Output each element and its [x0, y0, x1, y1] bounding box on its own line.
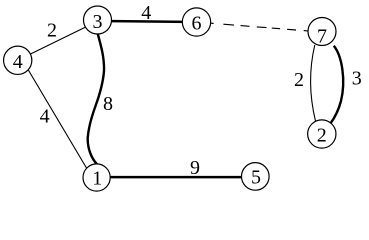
svg-text:4: 4 — [40, 106, 50, 128]
svg-text:9: 9 — [190, 157, 200, 179]
svg-text:5: 5 — [251, 166, 261, 188]
node 6 — [182, 8, 210, 36]
svg-text:4: 4 — [13, 51, 23, 73]
svg-text:1: 1 — [92, 168, 102, 190]
node 4 — [4, 46, 32, 74]
node 3 — [84, 6, 112, 34]
node 2 — [308, 120, 336, 148]
svg-text:4: 4 — [141, 2, 151, 24]
wire edge 4-3 — [18, 21, 98, 60]
wire edge 6-7 dashed — [210, 23, 308, 31]
node 5 — [242, 163, 270, 191]
svg-text:6: 6 — [192, 12, 202, 34]
wire edge 7-2 right — [331, 46, 344, 124]
svg-text:2: 2 — [294, 69, 304, 91]
wire edge 7-2 left — [311, 45, 316, 121]
svg-text:2: 2 — [317, 124, 327, 146]
svg-text:2: 2 — [47, 20, 57, 42]
svg-text:7: 7 — [317, 25, 327, 47]
wire edge 1-5 — [97, 176, 256, 179]
svg-text:3: 3 — [93, 11, 103, 33]
node 7 — [308, 18, 336, 48]
svg-text:8: 8 — [103, 93, 113, 115]
wire edge 3-1 curved — [88, 33, 104, 165]
wire edge 3-6 — [98, 21, 197, 22]
wire edge 4-1 — [21, 58, 95, 183]
node 1 — [83, 164, 110, 191]
svg-text:3: 3 — [352, 68, 362, 90]
